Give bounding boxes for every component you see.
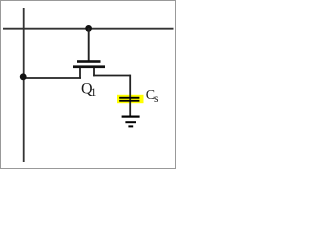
svg-text:1: 1 [91,85,97,99]
node junction dot on word line [85,25,92,32]
ground bar 1 [122,116,140,118]
node junction dot on bit line [20,73,27,80]
capacitor C_S bottom plate [119,100,139,102]
wire source leg [79,68,81,79]
transistor Q1 channel bar [73,65,105,68]
wire word line (horizontal) [3,28,174,30]
wire drain leg [93,68,95,76]
frame border [1,1,176,169]
wire capacitor lead [129,75,131,116]
wire bit line (vertical) [23,8,25,162]
wire drain to capacitor [93,75,130,77]
ground bar 3 [128,125,133,127]
wire gate lead [88,28,90,62]
svg-text:s: s [154,93,159,105]
ground bar 2 [125,121,136,123]
capacitor highlight [117,95,144,103]
capacitor C_S top plate [119,97,139,99]
transistor Q1 gate bar [77,60,101,63]
wire source to bit line [23,77,81,79]
